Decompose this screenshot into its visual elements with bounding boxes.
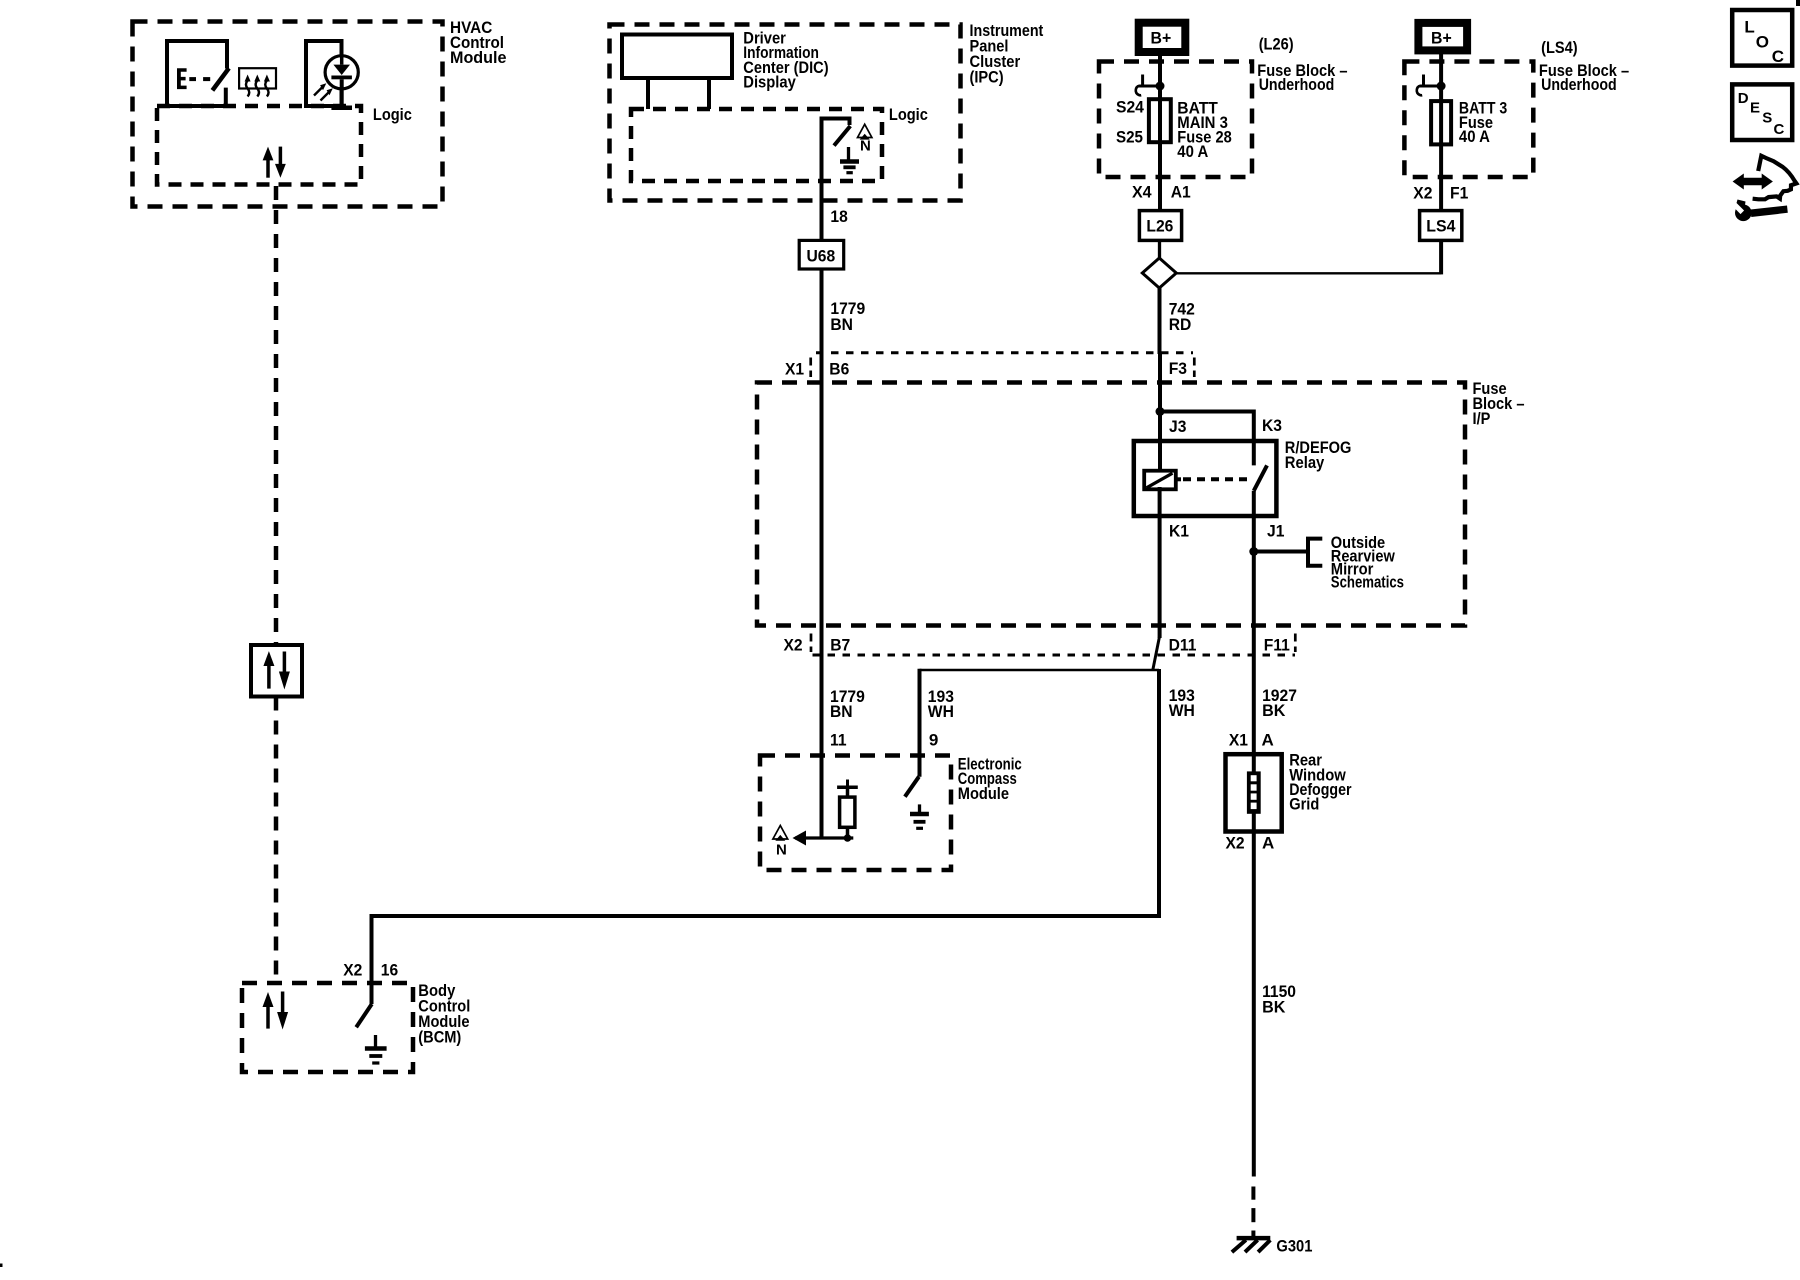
svg-text:X1: X1: [1229, 730, 1248, 749]
connector L26: [1139, 211, 1181, 241]
compass label: [958, 755, 1022, 803]
IPC internal switch: [822, 119, 851, 146]
svg-text:RD: RD: [1169, 315, 1192, 334]
branch wire to K3: [1160, 412, 1254, 466]
svg-text:WH: WH: [1169, 701, 1195, 720]
compass internal switch pin 9: [905, 777, 919, 797]
compass internal ground: [910, 804, 929, 828]
fuse block underhood right label: [1539, 61, 1629, 94]
dashed serial data wire to BCM: [274, 697, 279, 984]
page reference N (compass): [773, 826, 788, 859]
wire label 742 RD: [1169, 299, 1195, 334]
wire labels 1779 BN lower: [830, 687, 865, 721]
DIC display box: [622, 35, 732, 110]
svg-text:D: D: [1738, 90, 1749, 107]
wire 1150 BK defogger to G301: [1252, 832, 1256, 1177]
HVAC logic box: [157, 105, 412, 185]
R/DEFOG Relay label: [1285, 438, 1352, 472]
Fuse Block I/P box: [757, 383, 1465, 626]
wire L26 to splice diamond: [1158, 240, 1161, 258]
svg-text:Schematics: Schematics: [1331, 573, 1404, 592]
junction J3/K3: [1156, 407, 1165, 416]
wire 742 RD diamond to F3: [1158, 288, 1162, 354]
B+ terminal left: [1139, 23, 1186, 52]
HVAC Control Module label: [450, 18, 507, 67]
X2 16 labels BCM: [343, 961, 398, 980]
wire B+ to L26: [1158, 52, 1162, 211]
relay contact lever: [1254, 465, 1267, 490]
jumper diamond to LS4: [1176, 272, 1441, 274]
wire label 1779 BN: [830, 299, 865, 334]
svg-text:S25: S25: [1116, 128, 1143, 147]
svg-text:X2: X2: [784, 636, 803, 655]
svg-text:N: N: [860, 138, 871, 155]
svg-text:A: A: [1262, 834, 1274, 853]
X2 A labels defogger: [1226, 834, 1275, 853]
svg-text:B7: B7: [830, 636, 850, 655]
B+ terminal right: [1418, 23, 1467, 51]
Fuse Block I/P label: [1473, 379, 1525, 428]
wire label 1150 BK: [1262, 982, 1296, 1017]
HVAC Control Module box: [133, 22, 443, 207]
mirror schematics label: [1331, 533, 1404, 591]
wire 193 WH to BCM: [372, 669, 1160, 1004]
svg-text:J3: J3: [1169, 417, 1186, 436]
wire LS4 to jumper: [1439, 240, 1443, 274]
relay coil-contact link: [1183, 477, 1250, 481]
svg-text:K3: K3: [1262, 416, 1282, 435]
wire label 193 WH at D11: [1169, 686, 1195, 720]
X1 A labels defogger: [1229, 730, 1274, 749]
compass internal resistor: [837, 780, 858, 842]
svg-text:X2: X2: [343, 961, 362, 980]
navigation icon: [1732, 156, 1797, 221]
BCM internal ground: [365, 1035, 387, 1063]
corner mark top right: [1796, 0, 1800, 6]
splice tap right: [1417, 75, 1446, 96]
svg-text:Module: Module: [958, 784, 1009, 803]
svg-text:L26: L26: [1146, 217, 1173, 236]
compass internal wire and arrow: [793, 831, 854, 846]
wire 193 WH to compass: [920, 669, 1160, 777]
IPC internal ground: [840, 147, 859, 173]
body control module box: [242, 983, 413, 1072]
corner mark bottom left: [0, 1264, 3, 1268]
connector band X2 bottom: [784, 634, 1296, 656]
svg-text:BN: BN: [830, 315, 853, 334]
wire pin 18 to U68: [820, 121, 824, 241]
connector U68: [799, 240, 844, 269]
svg-text:S: S: [1762, 110, 1772, 127]
svg-text:L: L: [1744, 18, 1754, 37]
fuse BATT 3: [1431, 101, 1451, 144]
svg-text:(L26): (L26): [1259, 35, 1294, 54]
off-page bracket: [1308, 539, 1322, 566]
fuse label left: [1177, 98, 1231, 161]
defogger label: [1289, 751, 1352, 814]
wire 1779 BN U68 to compass: [820, 269, 824, 838]
electronic compass module box: [760, 756, 951, 871]
relay labels J3 K3: [1169, 416, 1282, 436]
BCM label: [418, 981, 470, 1047]
svg-text:A: A: [1262, 730, 1274, 749]
svg-text:Display: Display: [743, 72, 796, 91]
DESC icon: [1732, 84, 1792, 140]
svg-text:I/P: I/P: [1473, 409, 1491, 428]
svg-text:X2: X2: [1413, 184, 1432, 203]
svg-text:11: 11: [830, 731, 847, 750]
S24 S25 labels: [1116, 98, 1144, 147]
D11 jog: [1153, 636, 1160, 670]
svg-text:Relay: Relay: [1285, 453, 1325, 472]
wire 742 RD F3 to relay coil: [1158, 353, 1162, 472]
relay coil: [1144, 471, 1181, 490]
wire label 1927 BK: [1262, 686, 1297, 720]
svg-text:(LS4): (LS4): [1541, 38, 1578, 57]
BCM serial arrows: [263, 992, 289, 1030]
svg-text:B+: B+: [1151, 28, 1172, 47]
svg-text:C: C: [1772, 47, 1784, 66]
svg-text:18: 18: [830, 207, 847, 226]
dashed serial data wire HVAC to serial box: [274, 186, 279, 645]
svg-text:Logic: Logic: [889, 105, 928, 124]
svg-text:C: C: [1774, 121, 1785, 138]
IPC label: [970, 21, 1044, 87]
BCM internal switch: [356, 1004, 372, 1027]
LOC icon: [1732, 10, 1792, 66]
svg-text:(IPC): (IPC): [970, 67, 1004, 86]
fuse block underhood left label: [1257, 61, 1347, 94]
R/DEFOG relay box: [1134, 441, 1277, 516]
ground G301: [1232, 1237, 1313, 1256]
svg-text:Underhood: Underhood: [1541, 75, 1617, 94]
svg-text:U68: U68: [807, 247, 836, 266]
defog switch box (E): [167, 41, 229, 106]
wire label 193 WH compass: [928, 687, 954, 721]
svg-text:Grid: Grid: [1289, 795, 1319, 814]
fuse block underhood left box: [1099, 62, 1252, 178]
svg-text:B6: B6: [829, 360, 849, 379]
fuse BATT MAIN 3: [1149, 99, 1171, 142]
splice diamond: [1142, 258, 1176, 288]
IPC box: [610, 25, 961, 201]
svg-text:Logic: Logic: [373, 105, 412, 124]
svg-text:WH: WH: [928, 702, 954, 721]
splice tap S24/S25: [1136, 75, 1165, 96]
serial data box: [251, 645, 302, 697]
page reference N (IPC): [858, 124, 872, 154]
svg-text:BK: BK: [1262, 998, 1286, 1017]
svg-text:G301: G301: [1276, 1237, 1312, 1256]
connector LS4: [1420, 211, 1462, 241]
serial data arrows in logic: [263, 147, 286, 178]
svg-text:X1: X1: [785, 360, 804, 379]
wire B+ to LS4: [1439, 50, 1443, 211]
svg-text:BK: BK: [1262, 701, 1286, 720]
defogger grid element: [1247, 771, 1261, 813]
svg-text:40 A: 40 A: [1177, 142, 1208, 161]
svg-text:9: 9: [929, 731, 938, 750]
svg-text:F3: F3: [1169, 359, 1187, 378]
connector band X1 top: [785, 353, 1194, 379]
svg-text:16: 16: [381, 961, 398, 980]
DIC label: [743, 28, 828, 91]
svg-text:Underhood: Underhood: [1259, 75, 1335, 94]
dashed wire to ground: [1251, 1187, 1255, 1238]
heater symbol: [239, 68, 276, 96]
svg-text:J1: J1: [1267, 522, 1284, 541]
svg-text:X2: X2: [1226, 834, 1245, 853]
rear window defogger grid box: [1226, 754, 1282, 831]
svg-text:K1: K1: [1169, 522, 1189, 541]
branch to mirror schematics: [1254, 550, 1308, 554]
X2 F1 labels: [1413, 184, 1468, 203]
svg-text:F1: F1: [1450, 184, 1468, 203]
photo sensor box: [306, 41, 358, 110]
svg-text:BN: BN: [830, 702, 853, 721]
svg-text:O: O: [1756, 33, 1769, 52]
relay labels K1 J1: [1169, 522, 1284, 541]
fuse block underhood right box: [1404, 62, 1533, 178]
svg-text:E: E: [1750, 99, 1760, 116]
svg-text:F11: F11: [1264, 636, 1290, 655]
svg-text:X4: X4: [1132, 183, 1152, 202]
svg-text:N: N: [776, 842, 787, 859]
svg-text:S24: S24: [1116, 98, 1144, 117]
X4 A1 labels: [1132, 183, 1191, 202]
svg-text:(BCM): (BCM): [418, 1028, 461, 1047]
svg-text:B+: B+: [1431, 28, 1452, 47]
svg-text:LS4: LS4: [1426, 217, 1456, 236]
svg-text:A1: A1: [1171, 183, 1191, 202]
fuse label right: [1459, 98, 1507, 146]
junction J1 branch: [1249, 547, 1258, 556]
svg-text:D11: D11: [1169, 636, 1197, 655]
svg-text:40 A: 40 A: [1459, 127, 1490, 146]
svg-text:Module: Module: [450, 48, 507, 67]
wire K1 to D11: [1158, 487, 1162, 638]
wire J1 to F11 and defogger: [1252, 491, 1256, 832]
IPC logic box: [631, 105, 928, 181]
